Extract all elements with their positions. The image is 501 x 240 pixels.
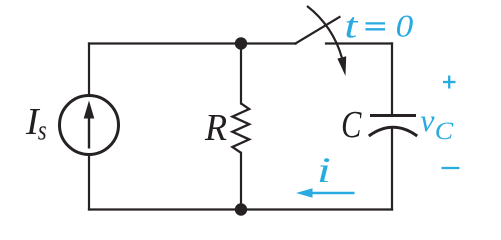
svg-text:C: C: [341, 104, 362, 146]
svg-text:i: i: [317, 151, 331, 190]
svg-text:t: t: [344, 7, 359, 47]
svg-text:v: v: [420, 102, 435, 138]
svg-text:R: R: [204, 107, 227, 149]
svg-text:C: C: [435, 117, 454, 145]
svg-text:0: 0: [396, 9, 414, 44]
svg-text:s: s: [38, 115, 47, 146]
